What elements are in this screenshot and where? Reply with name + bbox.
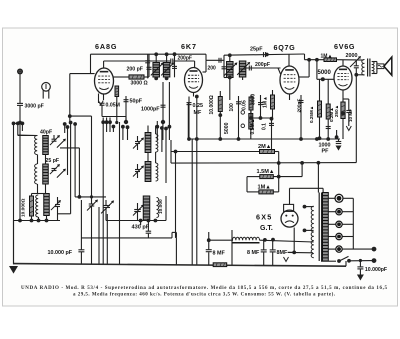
wire bus end to switch xyxy=(345,261,347,266)
svg-text:6K7: 6K7 xyxy=(181,42,197,51)
resistor on ground bus xyxy=(213,263,227,267)
wire B+ line y163 xyxy=(171,162,356,165)
wire screen drop x316.9 xyxy=(316,60,318,80)
svg-text:8 MF: 8 MF xyxy=(213,251,226,257)
capacitor 3000pF antenna xyxy=(17,103,23,105)
wire osc center row xyxy=(106,220,166,222)
svg-text:430 pF: 430 pF xyxy=(132,225,150,231)
svg-text:UNDA RADIO - Mod. R 53/4 - Sup: UNDA RADIO - Mod. R 53/4 - Supereterodin… xyxy=(21,286,388,291)
resistor 1M (6V6G grid) xyxy=(324,58,337,62)
mains switch xyxy=(321,260,336,262)
wire divider vertical x278.7 xyxy=(278,152,280,192)
svg-text:3000 pF: 3000 pF xyxy=(25,104,44,110)
tube 6A8G xyxy=(95,68,114,94)
trimmer B1 xyxy=(50,164,60,174)
svg-text:0.25M▲: 0.25M▲ xyxy=(309,106,314,123)
junction row x123-127 xyxy=(121,125,125,129)
wire rail x99 xyxy=(98,207,100,265)
svg-text:40pF: 40pF xyxy=(40,129,52,135)
wire 6A8G top cap xyxy=(103,61,105,68)
svg-text:200pF: 200pF xyxy=(297,99,303,113)
speaker driver xyxy=(377,64,384,69)
wire 6Q7G top cap drop xyxy=(288,54,290,66)
output transformer primary xyxy=(362,60,365,76)
wire coil C-D links xyxy=(147,153,149,162)
wire 250ohm to bus link xyxy=(336,130,338,137)
resistor 2M xyxy=(260,150,275,154)
wire 6Q7G cathode stub xyxy=(289,94,291,100)
svg-text:2000: 2000 xyxy=(346,53,358,59)
svg-text:10.000Ω: 10.000Ω xyxy=(209,95,215,114)
wire y238 line xyxy=(81,237,172,239)
power transformer primary xyxy=(311,206,314,258)
wire screen drop xyxy=(196,97,198,265)
svg-text:10.000: 10.000 xyxy=(158,199,164,214)
wire mid verticals to bus xyxy=(80,200,82,250)
wire osc feed y196.9 xyxy=(75,196,106,198)
IF1 top line xyxy=(147,54,149,68)
capacitor 8MF 2 xyxy=(263,240,265,250)
svg-text:8 MF: 8 MF xyxy=(247,250,260,256)
wire 2M line y151.5 xyxy=(171,151,260,153)
resistor 1M avc xyxy=(247,191,259,193)
osc variable cap center xyxy=(133,205,144,216)
svg-text:3000: 3000 xyxy=(251,94,257,105)
terminal 4 xyxy=(336,233,342,239)
wire vert x208.75 xyxy=(208,232,210,240)
wire terminal link vertical xyxy=(352,198,354,249)
IF transformer 1 winding B xyxy=(163,63,170,78)
svg-text:200: 200 xyxy=(208,65,217,71)
tube 6K7 xyxy=(185,68,203,93)
resistor 1M vertical xyxy=(272,90,274,95)
capacitor 200 (IF2 in) xyxy=(219,58,221,63)
filter choke xyxy=(233,237,260,240)
wire choke to transformer xyxy=(260,240,314,242)
IF1 bottom joins xyxy=(155,77,157,80)
tube 6X5 xyxy=(281,204,298,227)
resistor 0.5M xyxy=(249,114,253,130)
svg-text:a 29,5. Media frequenza: 460 k: a 29,5. Media frequenza: 460 kc/s. Poten… xyxy=(73,292,336,297)
tube 6V6G xyxy=(334,66,352,90)
wire antenna into coils xyxy=(17,123,19,135)
wire 25pF line y55 xyxy=(224,54,305,55)
svg-text:1M▲: 1M▲ xyxy=(258,185,271,191)
svg-text:6V6G: 6V6G xyxy=(334,42,355,51)
wire 6X5 cathode xyxy=(293,228,295,253)
IF transformer 1 winding A xyxy=(153,63,160,78)
wire antenna lead xyxy=(19,75,21,104)
wire x302.1 riser xyxy=(301,163,303,177)
transformer tap stubs right xyxy=(328,197,335,199)
svg-text:25 pF: 25 pF xyxy=(46,158,60,164)
wire coil B verticals xyxy=(37,155,39,165)
wire osc feed y213.8 xyxy=(58,213,71,215)
mixer trimmer D xyxy=(133,166,144,177)
svg-text:6A8G: 6A8G xyxy=(95,42,117,51)
svg-text:G.T.: G.T. xyxy=(260,225,273,232)
wire grid return y116.1 xyxy=(70,115,92,117)
wire B+ from rectifier y240.3 xyxy=(209,239,233,241)
potentiometer 5000 xyxy=(241,111,245,115)
wire 6Q7G plate xyxy=(299,76,309,78)
svg-text:6X5: 6X5 xyxy=(256,213,272,222)
wire left column x13.5 xyxy=(13,123,15,264)
wire 5000 line y79.3 xyxy=(317,78,334,80)
capacitor 2000 tone xyxy=(355,60,357,66)
svg-text:8MF: 8MF xyxy=(277,250,288,256)
wire B+ to output transformer xyxy=(356,74,364,76)
RF coil block A left xyxy=(35,136,38,155)
power transformer core xyxy=(318,193,320,262)
wire bus y139 xyxy=(188,138,340,140)
svg-text:1000pF: 1000pF xyxy=(141,107,160,113)
tube 6Q7G xyxy=(280,66,299,94)
capacitor small xyxy=(326,127,331,129)
svg-text:10.000Ω: 10.000Ω xyxy=(21,198,27,217)
output transformer core xyxy=(367,59,369,77)
wire osc risers xyxy=(140,221,142,226)
osc trimmer center xyxy=(101,200,114,213)
capacitor 1000pF xyxy=(162,82,164,122)
wire 6K7 plate xyxy=(203,71,207,73)
wire dogleg x304.5 xyxy=(304,54,306,60)
wire trimmer rail x79.4 xyxy=(60,147,79,149)
oscillator coil center dark xyxy=(143,196,150,220)
wire heater return xyxy=(288,251,313,253)
mixer coil block D xyxy=(145,162,151,182)
capacitor 8MF 3 xyxy=(272,240,274,250)
svg-text:2M▲: 2M▲ xyxy=(258,144,271,150)
wire plate 6V6G to output transformer xyxy=(342,60,344,66)
tone switch arrow xyxy=(350,56,361,67)
resistor 0.25M xyxy=(319,79,321,101)
wire bottom row y220.5 left xyxy=(14,220,61,222)
resistor 1.5M xyxy=(247,176,260,178)
wire plate bus y54 xyxy=(91,53,207,55)
wire 6Q7G diode return xyxy=(251,117,273,119)
wire IF2 riser xyxy=(223,55,225,62)
svg-text:5000: 5000 xyxy=(224,122,230,134)
IF transformer 2 winding A xyxy=(227,62,234,78)
wire antenna-coil drop x69.8 xyxy=(69,74,71,123)
phono jack xyxy=(42,83,51,92)
resistor 0.5M screen xyxy=(327,79,329,104)
IF2 caps xyxy=(223,62,225,78)
svg-text:3000 Ω: 3000 Ω xyxy=(131,81,148,87)
svg-text:5000: 5000 xyxy=(318,70,332,76)
oscillator coil center right xyxy=(157,198,159,218)
wire avc link y116.5 xyxy=(102,116,126,118)
mixer coil block C xyxy=(145,133,151,153)
trimmer arrow 2 xyxy=(57,139,66,148)
svg-text:200 pF: 200 pF xyxy=(127,67,143,73)
resistor 250 ohm cathode xyxy=(342,90,344,102)
capacitor 100 xyxy=(238,96,240,139)
wire x62-75 rails xyxy=(64,124,66,133)
svg-text:10.000pF: 10.000pF xyxy=(365,267,387,273)
svg-text:1M▲: 1M▲ xyxy=(321,53,333,59)
wire grid line 6V6G y59.7 xyxy=(305,59,325,61)
capacitor 0.25MF xyxy=(188,97,190,140)
wire 6A8G cathode stubs xyxy=(98,94,100,104)
capacitor 0.1 xyxy=(271,118,273,152)
wire HV top from plate xyxy=(317,162,319,193)
svg-text:0.1: 0.1 xyxy=(262,123,268,130)
capacitor 8MF 1 xyxy=(208,240,210,250)
junction row x103-113 xyxy=(101,120,105,124)
svg-text:MF: MF xyxy=(194,110,202,116)
terminal 3 xyxy=(336,221,342,227)
svg-text:0.5M▲: 0.5M▲ xyxy=(250,118,256,134)
wire osc left bottoms to row xyxy=(31,216,33,221)
wire bus riser x188 xyxy=(187,103,189,139)
wire 6Q7G grid entry xyxy=(278,68,281,74)
IF transformer 2 winding B xyxy=(239,61,246,77)
wire mixer right rails xyxy=(161,128,163,152)
svg-text:0.2M▲: 0.2M▲ xyxy=(329,107,334,122)
osc trimmer left xyxy=(51,200,61,210)
mixer tuning cap C xyxy=(133,138,144,149)
capacitor 25pF xyxy=(264,52,266,57)
resistor 0.05M xyxy=(250,95,252,110)
wire corner left of 6A8G xyxy=(90,54,92,73)
svg-text:1M▲: 1M▲ xyxy=(263,96,269,108)
wire 6K7 cathode stub xyxy=(193,93,195,97)
svg-text:1.5M▲: 1.5M▲ xyxy=(257,169,275,175)
svg-text:10 MF: 10 MF xyxy=(348,109,353,122)
wire antenna column down xyxy=(19,123,21,221)
svg-text:250▲: 250▲ xyxy=(334,105,339,117)
capacitor 3000 xyxy=(260,95,262,118)
wire ladder left x247 xyxy=(246,177,248,192)
capacitor 0.05M cathode xyxy=(101,106,103,117)
transformer left taps xyxy=(305,206,314,208)
capacitor 50pF xyxy=(125,96,127,122)
capacitor 200pF (plate) xyxy=(147,67,152,69)
svg-text:10.000 pF: 10.000 pF xyxy=(48,250,73,256)
ground bus xyxy=(14,264,347,267)
capacitor 430pF padder xyxy=(147,221,149,232)
capacitor 200pF plate bypass xyxy=(300,95,302,139)
svg-text:0.05: 0.05 xyxy=(241,100,247,110)
capacitor IF1 right xyxy=(174,54,176,77)
capacitor 10MF electrolytic xyxy=(343,98,349,100)
resistor 10000 ohm screen xyxy=(219,91,221,97)
terminal 2 xyxy=(336,209,342,215)
wire 6K7 top cap drop xyxy=(194,61,196,68)
wire terminal5 to plug xyxy=(343,248,375,250)
terminal 1 xyxy=(335,194,343,202)
wire osc left tops xyxy=(32,193,47,195)
trimmer 40pF xyxy=(50,135,60,145)
RF coil block B left xyxy=(35,164,38,184)
trimmer oscillator padding xyxy=(87,200,98,211)
capacitor 200pF (6Q7G grid) xyxy=(249,66,251,71)
trimmer B2 xyxy=(57,169,66,178)
junction row x157-169 xyxy=(155,125,159,129)
ground symbol left xyxy=(9,266,18,274)
svg-text:6Q7G: 6Q7G xyxy=(274,43,296,52)
wire 200pF drop x149 xyxy=(148,54,150,77)
wire 6Q7G grid line xyxy=(242,77,244,80)
output transformer secondary xyxy=(372,62,374,74)
resistor 3000 ohm xyxy=(114,76,130,78)
speaker cone xyxy=(384,57,392,75)
svg-text:200pF: 200pF xyxy=(255,62,270,68)
svg-text:0.25: 0.25 xyxy=(193,103,204,109)
wire speaker links xyxy=(372,61,377,63)
wire left riser x171/175.5 xyxy=(170,140,172,163)
capacitor 10000pF mains xyxy=(359,261,361,267)
svg-text:PF: PF xyxy=(322,149,330,155)
capacitor 1000pF to ground xyxy=(338,139,340,142)
capacitor 10000pF xyxy=(78,250,84,252)
terminal 5 xyxy=(336,246,342,252)
capacitor 200pF grid xyxy=(171,59,173,64)
svg-text:0.05M: 0.05M xyxy=(106,103,120,109)
resistor 6A8G bias xyxy=(115,86,119,97)
svg-text:25pF: 25pF xyxy=(250,47,263,53)
wire x90.8 junction xyxy=(90,195,93,198)
junction row y122.5 xyxy=(12,122,16,126)
wire verticals to ground bus xyxy=(165,196,167,221)
power transformer secondary xyxy=(323,193,329,262)
antenna xyxy=(17,69,23,75)
wire 6X5 plate riser xyxy=(289,188,291,204)
svg-text:200pF: 200pF xyxy=(178,56,192,62)
mixer coil risers xyxy=(147,126,149,133)
svg-text:100: 100 xyxy=(229,103,235,112)
wire IF2 bottoms xyxy=(224,77,230,79)
wire x13.5 gnd xyxy=(13,221,15,265)
wire switch to plug xyxy=(351,260,375,262)
wire jog at x206 xyxy=(205,54,207,60)
svg-text:50pF: 50pF xyxy=(130,98,143,104)
